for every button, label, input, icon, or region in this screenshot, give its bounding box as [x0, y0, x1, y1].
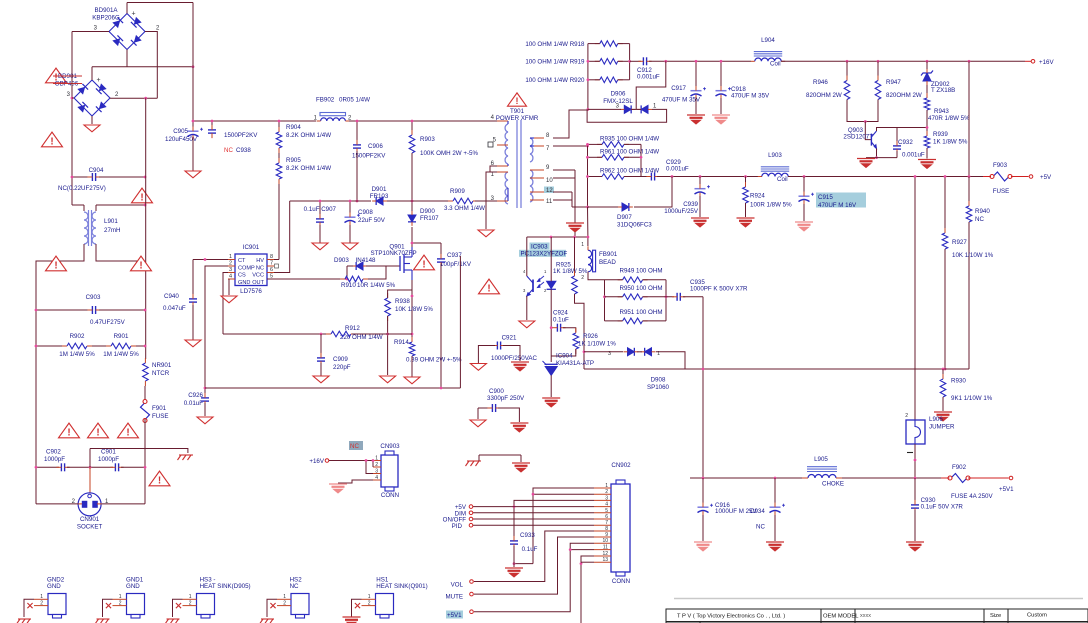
svg-text:100 OHM 1/4W R919: 100 OHM 1/4W R919: [525, 59, 585, 66]
svg-text:IN4148: IN4148: [356, 257, 377, 264]
wire AC line left vertical x72: [71, 32, 73, 206]
svg-text:D908: D908: [651, 377, 666, 384]
svg-text:8: 8: [270, 254, 273, 260]
pin 2 of GND1: [113, 601, 127, 607]
wire C912 to 16V rail: [649, 60, 696, 62]
resistor R902 1M: [62, 343, 92, 349]
zener diode ZD902 TZX18B: [921, 69, 933, 85]
svg-text:100R 1/8W 5%: 100R 1/8W 5%: [750, 202, 792, 209]
capacitor C930 label: [921, 497, 964, 511]
label R909: [444, 188, 485, 212]
wire C940 column: [192, 260, 194, 298]
dual diode D906 right half: [637, 105, 652, 113]
svg-text:NC: NC: [224, 147, 233, 154]
choke L905: [802, 467, 842, 478]
label D903 IN4148: [334, 257, 376, 264]
junction: [586, 145, 589, 148]
svg-text:GND: GND: [238, 280, 250, 286]
svg-text:R909: R909: [450, 188, 465, 195]
svg-text:470UF M 35V: 470UF M 35V: [731, 93, 770, 100]
wire R961 right link: [624, 156, 641, 158]
svg-text:T P V ( Top Victory El: T P V ( Top Victory Electronics Co . , L…: [677, 614, 785, 620]
wire R909 to T901 pin3: [475, 200, 497, 202]
wire 16V rail: [696, 60, 751, 62]
wire CN903 pin2 jumper: [372, 461, 374, 468]
capacitor C900 3300pF 250V: [487, 404, 500, 412]
junction: [914, 459, 917, 462]
pin 1 of GND2: [34, 594, 48, 600]
wire C940 bottom: [192, 305, 194, 340]
ground below C934: [766, 542, 784, 551]
wire C916 column: [702, 478, 704, 503]
wire D906 center tap up to rail: [631, 108, 641, 110]
svg-text:R940: R940: [975, 208, 990, 215]
junction: [356, 200, 359, 203]
resistor R926 1K: [573, 328, 579, 354]
warning triangle below L901 left: [46, 256, 67, 271]
wire IC901 pin6 VCC wire: [274, 201, 290, 273]
wire R904 to R905: [278, 153, 280, 162]
resistor R962 100 OHM: [597, 174, 629, 180]
resistor R949 100 OHM: [618, 277, 648, 283]
wire BD901A left to AC line: [72, 31, 109, 33]
wire C921 left: [478, 346, 495, 364]
wire D903 anode to gate node: [366, 265, 386, 267]
svg-text:!: !: [50, 136, 53, 147]
wire R961 left link: [588, 156, 603, 158]
ground below C930: [906, 542, 924, 551]
wire IC901 pin2 COMP wire: [205, 266, 228, 396]
svg-text:VCC: VCC: [252, 273, 264, 279]
svg-text:1: 1: [189, 594, 192, 600]
svg-text:C900: C900: [489, 388, 504, 395]
wire R940 bottom to rail369: [968, 222, 970, 369]
warning triangle right of C904: [132, 188, 153, 203]
pin 1 of IC901: [228, 254, 235, 260]
junction: [587, 60, 590, 63]
wire C935 right to x703: [683, 296, 703, 298]
junction: [586, 175, 589, 178]
capacitor C906 1500PF2KV: [353, 140, 361, 153]
pin 1 wire of HS1: [352, 599, 362, 617]
svg-text:1000pF: 1000pF: [44, 456, 65, 463]
svg-text:D907: D907: [617, 214, 632, 221]
capacitor C902 label: [44, 449, 65, 463]
label R904: [286, 124, 331, 139]
wire D903 vertical left: [346, 266, 348, 279]
svg-text:CHOKE: CHOKE: [822, 481, 844, 488]
wire R914 bottom: [411, 356, 413, 377]
svg-text:1: 1: [581, 242, 584, 248]
label C937: [440, 252, 472, 268]
junction: [550, 236, 553, 239]
svg-text:!: !: [126, 427, 129, 438]
wire Q901 drain node: [411, 243, 413, 247]
svg-text:D903: D903: [334, 257, 349, 264]
junction: [846, 60, 849, 63]
ground left of C900: [470, 420, 486, 427]
title block table: [666, 609, 1088, 623]
wire BD901 bottom to ground: [91, 116, 93, 124]
ic IC903 label highlighted: [519, 243, 567, 258]
wire pin11 to D907 row: [572, 206, 588, 208]
jumper L906 body: [906, 420, 925, 444]
svg-text:0.1uF: 0.1uF: [522, 546, 538, 553]
resistor R943 470R: [924, 93, 930, 115]
label D908: [647, 377, 670, 392]
svg-text:12: 12: [602, 551, 608, 557]
svg-text:C939: C939: [683, 201, 698, 208]
ground below C921 left: [470, 364, 486, 371]
svg-text:R930: R930: [951, 378, 966, 385]
node VOL port: [470, 580, 474, 584]
ground below R924: [737, 218, 755, 227]
wire R939 gnd: [926, 148, 928, 159]
pin 5 of CN902: [594, 508, 611, 514]
inductor FB902 0R05: [317, 118, 350, 121]
svg-text:R949 100 OHM: R949 100 OHM: [620, 268, 663, 275]
wire C924 right to R926: [563, 328, 576, 332]
no-connect marker on IC901 pin 7: [275, 264, 279, 268]
pin 5 of IC901: [267, 274, 274, 280]
wire R935 left link: [588, 143, 603, 145]
wire CN902 pin10 wire: [474, 543, 594, 612]
svg-text:1: 1: [283, 594, 286, 600]
junction: [720, 60, 723, 63]
red lead F902 to port: [968, 477, 1009, 479]
junction: [875, 156, 878, 159]
connector HS2 labels: [290, 577, 303, 591]
svg-text:+5V1: +5V1: [999, 486, 1014, 493]
wire T901 pin6-1 left stub: [490, 166, 497, 172]
connector HS1 body: [376, 594, 394, 619]
svg-text:R926: R926: [583, 333, 598, 340]
svg-text:C905: C905: [173, 128, 188, 135]
wire x945 stub: [944, 177, 946, 234]
wire CN902 pin12 wire: [581, 556, 594, 623]
shunt regulator IC904 label: [556, 353, 594, 368]
capacitor C926 0.01uF: [201, 393, 209, 406]
ground below R914: [404, 377, 420, 384]
connector HS2 body: [291, 594, 309, 619]
svg-text:27mH: 27mH: [104, 227, 121, 234]
capacitor C937 100pF 1KV: [437, 254, 445, 267]
capacitor C940 label: [163, 293, 186, 312]
svg-text:Custom: Custom: [1027, 613, 1047, 619]
wire R94x right bus: [665, 280, 667, 321]
svg-text:+16V: +16V: [1039, 59, 1054, 66]
bridge rectifier BD901A KBP206G: [109, 11, 145, 50]
svg-text:R939: R939: [933, 131, 948, 138]
label C929: [666, 159, 689, 173]
wire R910 right join: [368, 266, 386, 279]
svg-text:820OHM 2W: 820OHM 2W: [806, 92, 842, 99]
ground below C905: [185, 171, 201, 178]
svg-text:NC: NC: [975, 216, 984, 223]
pin 4 of T901: [491, 115, 508, 124]
ground below R930: [934, 412, 952, 421]
wire T901 pin8 riser: [553, 110, 588, 138]
wire R924 stub: [745, 177, 747, 186]
svg-text:0.001uF: 0.001uF: [902, 152, 925, 159]
wire R962 right link: [624, 176, 641, 178]
capacitor C937 stub: [440, 243, 442, 257]
label R926: [578, 333, 616, 348]
svg-text:3: 3: [94, 26, 98, 32]
red lead F903 to port: [1011, 176, 1029, 178]
svg-text:R935 100 OHM 1/4W: R935 100 OHM 1/4W: [600, 136, 659, 143]
ground below C917: [687, 115, 705, 124]
wire row above L901 left: [72, 204, 84, 206]
svg-text:1: 1: [119, 594, 122, 600]
label C932: [898, 139, 925, 159]
pin 1 of HS1: [362, 594, 376, 600]
transistor Q903 2SD1207T npn: [871, 131, 876, 149]
capacitor C934 NC: [770, 503, 786, 516]
svg-text:FUSE: FUSE: [152, 413, 169, 420]
warning triangle near CN901: [149, 471, 170, 486]
svg-text:8.2K OHM 1/4W: 8.2K OHM 1/4W: [286, 165, 331, 172]
wire primary gnd bus: [205, 387, 460, 389]
svg-text:BD901: BD901: [58, 73, 77, 80]
svg-text:SOCKET: SOCKET: [77, 524, 103, 531]
junction: [803, 175, 806, 178]
label R902: [59, 333, 95, 358]
svg-text:PID: PID: [452, 523, 463, 530]
wire BD901 left vertex stub: [72, 97, 74, 99]
svg-text:+5V1: +5V1: [447, 612, 462, 619]
coil L903: [758, 167, 792, 177]
wire C918 gnd: [720, 98, 722, 114]
wire D908 center: [637, 351, 642, 353]
pin 2 of GND2: [34, 601, 48, 607]
svg-text:L903: L903: [768, 152, 782, 159]
svg-text:R924: R924: [750, 193, 765, 200]
wire R951 left link: [605, 320, 623, 322]
junction: [35, 309, 38, 312]
svg-text:9K1 1/10W 1%: 9K1 1/10W 1%: [951, 395, 993, 402]
svg-text:+: +: [97, 77, 101, 84]
capacitor C938 NC 1500PF2KV: [208, 125, 216, 138]
junction: [71, 97, 74, 100]
wire opto led anode up: [550, 237, 552, 281]
pin 8 of T901: [530, 133, 550, 139]
wire FB901 bottom to R949 block: [588, 272, 605, 280]
wire VCC row left: [290, 200, 371, 202]
label C908: [358, 209, 386, 224]
wire C915 stub: [803, 177, 805, 193]
red lead rail to F903: [983, 176, 991, 178]
capacitor C938 stub: [211, 121, 213, 128]
wire R926 bottom to IC904 ref: [551, 349, 576, 356]
wire R912 row: [223, 333, 330, 335]
diode D903 IN4148: [352, 262, 367, 270]
svg-text:3: 3: [229, 267, 232, 273]
thermistor NR901 NTCR: [143, 358, 149, 386]
wire CN903 pin3 wire: [366, 461, 373, 474]
svg-text:2: 2: [115, 92, 119, 98]
resistor R925 1K: [572, 271, 578, 299]
resistor R909 3.3 OHM: [448, 198, 478, 204]
wire right spine x145: [145, 98, 147, 359]
junction: [587, 108, 590, 111]
capacitor C933 0.1uF: [510, 536, 518, 549]
wire T901 pin9 wire: [553, 169, 575, 171]
warning triangle left of opto: [479, 279, 500, 294]
capacitor C918 470UF M 35V: [716, 86, 732, 99]
wire CN902 pin1 gnd wire: [533, 488, 594, 564]
junction: [192, 65, 195, 68]
junction: [573, 236, 576, 239]
junction: [914, 175, 917, 178]
label ZD902: [931, 81, 955, 94]
junction: [144, 97, 147, 100]
pin 4 of CN903: [373, 475, 381, 481]
chassis ground below GND2: [17, 619, 32, 623]
page shadow line: [674, 598, 1083, 600]
svg-text:3.3 OHM 1/4W: 3.3 OHM 1/4W: [444, 205, 485, 212]
junction: [346, 278, 349, 281]
svg-text:CN903: CN903: [380, 443, 400, 450]
no-connect X on pin 2 of HS2: [270, 603, 275, 608]
diode D900 FR107: [408, 211, 416, 226]
wire 5V rect row: [657, 176, 762, 178]
chassis ground mid: [466, 461, 482, 466]
svg-text:11: 11: [603, 545, 608, 551]
svg-text:D906: D906: [611, 91, 626, 98]
junction: [583, 350, 586, 353]
bridge rectifier BD901 GBP406: [74, 77, 110, 116]
capacitor C930 0.1uF: [911, 500, 919, 513]
wire C900 left down: [477, 408, 479, 419]
wire F901 down: [144, 419, 146, 504]
svg-text:HEAT SINK(Q901): HEAT SINK(Q901): [376, 583, 427, 590]
wire CN903 pin4 wire: [338, 480, 373, 483]
wire C918 stub: [720, 61, 722, 87]
warning triangle row3 a: [59, 423, 80, 438]
red lead rail to F902: [941, 477, 950, 479]
svg-text:FB902: FB902: [316, 97, 335, 104]
capacitor C935 1000PF: [672, 293, 685, 301]
capacitor C917 470UF M 35V: [691, 86, 707, 99]
wire HV bus vertical: [192, 3, 194, 129]
wire D900 to Q901 drain: [411, 227, 413, 247]
svg-text:R946: R946: [813, 79, 828, 86]
svg-text:1K 1/8W 5%: 1K 1/8W 5%: [933, 139, 968, 146]
connector GND2 labels: [47, 577, 65, 591]
svg-text:1K 1/8W 5%: 1K 1/8W 5%: [553, 268, 588, 275]
svg-text:1: 1: [605, 483, 608, 489]
junction: [942, 368, 945, 371]
svg-text:0.39 OHM 2W +-5%: 0.39 OHM 2W +-5%: [406, 357, 462, 364]
wire rail FB902 to T901 pin4: [349, 120, 497, 122]
svg-text:C902: C902: [46, 449, 61, 456]
wire row 448 to chassis: [90, 449, 188, 454]
bridge rectifier BD901 label struck out: [53, 73, 82, 88]
svg-text:4: 4: [229, 274, 232, 280]
diode D908 left half: [624, 348, 639, 356]
pin 1 of HS3: [183, 594, 197, 600]
wire R943 to R939 node: [926, 110, 928, 136]
wire x969 below 5V rail: [968, 177, 970, 207]
pin 2 of IC901: [228, 261, 235, 267]
label R943: [928, 108, 970, 122]
label L901: [104, 218, 121, 234]
svg-text:C917: C917: [671, 85, 686, 92]
ground below C916: [694, 542, 712, 551]
svg-text:1: 1: [229, 254, 232, 260]
junction: [744, 175, 747, 178]
junction: [877, 60, 880, 63]
junction: [586, 156, 589, 159]
svg-text:R950 100 OHM: R950 100 OHM: [620, 285, 663, 292]
resistor R918 100 OHM: [595, 41, 623, 47]
wire CN903 pin1 wire: [329, 460, 373, 462]
resistor R930 9K1: [940, 374, 946, 402]
wire R918 right link: [618, 43, 630, 45]
wire CN902 pin7 wire: [473, 524, 594, 526]
svg-text:2: 2: [375, 462, 378, 468]
wire C904 row left: [72, 176, 90, 178]
junction: [664, 60, 667, 63]
connector GND2 body: [48, 594, 66, 619]
svg-text:1000pF: 1000pF: [98, 456, 119, 463]
wire R925 top: [574, 237, 576, 275]
wire CN902 pin6 wire: [473, 518, 594, 520]
wire to Q903 base: [865, 122, 871, 140]
junction: [513, 505, 516, 508]
wire C917 gnd: [695, 98, 697, 114]
capacitor C912 0.001uF: [638, 57, 651, 65]
svg-text:2: 2: [119, 601, 122, 607]
svg-text:470R 1/8W 5%: 470R 1/8W 5%: [928, 115, 970, 122]
junction: [440, 387, 443, 390]
label NC highlighted: [349, 441, 363, 450]
shunt regulator IC904 KIA431A-ATP: [543, 361, 558, 375]
junction: [204, 258, 207, 261]
transformer T901 windings: [505, 120, 533, 208]
resistor R920 100 OHM: [595, 77, 623, 83]
wire gnd bus corner riser: [459, 256, 461, 388]
svg-text:R914: R914: [394, 339, 409, 346]
svg-text:C901: C901: [101, 449, 116, 456]
capacitor C902 1000pF: [56, 463, 69, 471]
svg-text:7: 7: [546, 146, 550, 152]
svg-text:FUSE 4A 250V: FUSE 4A 250V: [951, 493, 993, 500]
pin 1 of HS2: [277, 594, 291, 600]
resistor R919 100 OHM: [595, 59, 623, 65]
capacitor C926 label: [184, 392, 204, 407]
svg-text:R961 100 OHM 1/4W: R961 100 OHM 1/4W: [600, 149, 659, 156]
svg-text:L904: L904: [761, 37, 775, 44]
junction: [35, 345, 38, 348]
resistor R961 100 OHM: [597, 155, 629, 161]
wire R919 right link: [618, 60, 630, 62]
wire D907 cathode to 5V row: [634, 177, 672, 208]
connector HS1 labels: [376, 577, 427, 591]
resistor R939 1K: [924, 131, 930, 153]
wire drain row to C937: [412, 242, 441, 244]
svg-text:+: +: [132, 11, 136, 18]
wire R920 left link: [588, 79, 600, 81]
svg-text:C933: C933: [520, 532, 535, 539]
optocoupler IC903 phototransistor: [527, 276, 533, 296]
wire C907 to ground: [319, 225, 321, 243]
ground below C926: [197, 417, 213, 424]
svg-text:8.2K OHM 1/4W: 8.2K OHM 1/4W: [286, 132, 331, 139]
svg-text:C938: C938: [236, 147, 251, 154]
ground below CN903 pin4: [329, 484, 347, 493]
